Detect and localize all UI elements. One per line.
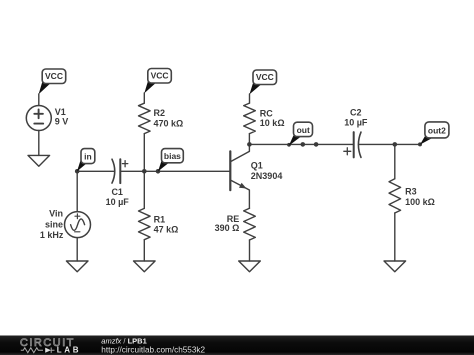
svg-text:VCC: VCC (256, 72, 274, 82)
svg-text:470 kΩ: 470 kΩ (154, 118, 184, 128)
svg-text:VCC: VCC (45, 71, 63, 81)
svg-text:2N3904: 2N3904 (251, 171, 283, 181)
svg-text:amzfx / LPB1: amzfx / LPB1 (101, 336, 146, 345)
svg-text:10 kΩ: 10 kΩ (260, 118, 285, 128)
svg-text:R1: R1 (154, 215, 166, 225)
svg-text:V1: V1 (55, 107, 66, 117)
svg-text:http://circuitlab.com/ch553k2: http://circuitlab.com/ch553k2 (101, 346, 205, 355)
svg-text:LAB: LAB (57, 346, 82, 355)
svg-text:47 kΩ: 47 kΩ (154, 224, 179, 234)
svg-text:VCC: VCC (151, 70, 169, 80)
svg-text:10 µF: 10 µF (106, 197, 130, 207)
svg-text:C2: C2 (350, 108, 362, 118)
svg-text:out2: out2 (428, 126, 446, 136)
svg-text:100 kΩ: 100 kΩ (405, 197, 435, 207)
svg-text:1 kHz: 1 kHz (40, 230, 64, 240)
svg-text:bias: bias (164, 151, 181, 161)
svg-text:in: in (84, 152, 92, 162)
svg-text:sine: sine (45, 219, 63, 229)
svg-text:Vin: Vin (49, 209, 63, 219)
svg-text:10 µF: 10 µF (344, 117, 368, 127)
svg-text:Q1: Q1 (251, 160, 263, 170)
svg-text:R2: R2 (154, 108, 166, 118)
svg-text:C1: C1 (111, 187, 123, 197)
svg-text:390 Ω: 390 Ω (215, 223, 240, 233)
svg-text:out: out (297, 125, 310, 135)
svg-text:RC: RC (260, 108, 273, 118)
svg-text:9 V: 9 V (55, 117, 69, 127)
svg-text:R3: R3 (405, 187, 417, 197)
